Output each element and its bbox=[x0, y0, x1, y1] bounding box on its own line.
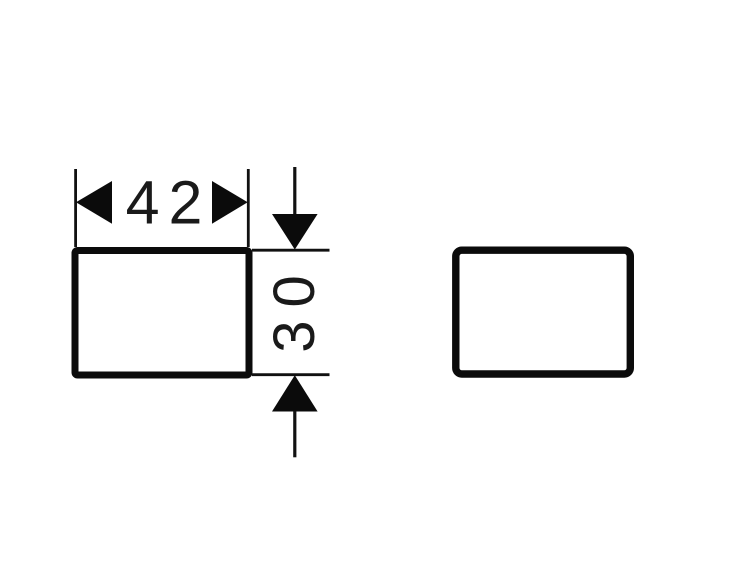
extension line lower horizontal (30 dim) bbox=[252, 373, 330, 376]
dimension line bottom segment (30 dim) bbox=[293, 411, 296, 457]
left rectangle (part outline, 42 x 30) bbox=[75, 251, 249, 376]
arrowhead right (42 dim) bbox=[212, 181, 248, 224]
arrowhead down (30 dim) bbox=[272, 214, 318, 250]
extension line right (42 dim) bbox=[247, 169, 250, 247]
extension line upper horizontal (30 dim) bbox=[252, 249, 330, 252]
svg-text:42: 42 bbox=[126, 168, 212, 236]
dimension line top segment (30 dim) bbox=[293, 167, 296, 216]
arrowhead up (30 dim) bbox=[272, 375, 318, 411]
svg-text:30: 30 bbox=[262, 262, 327, 353]
right rectangle (side view) bbox=[456, 250, 631, 374]
arrowhead left (42 dim) bbox=[76, 181, 112, 224]
extension line left (42 dim) bbox=[74, 169, 77, 247]
